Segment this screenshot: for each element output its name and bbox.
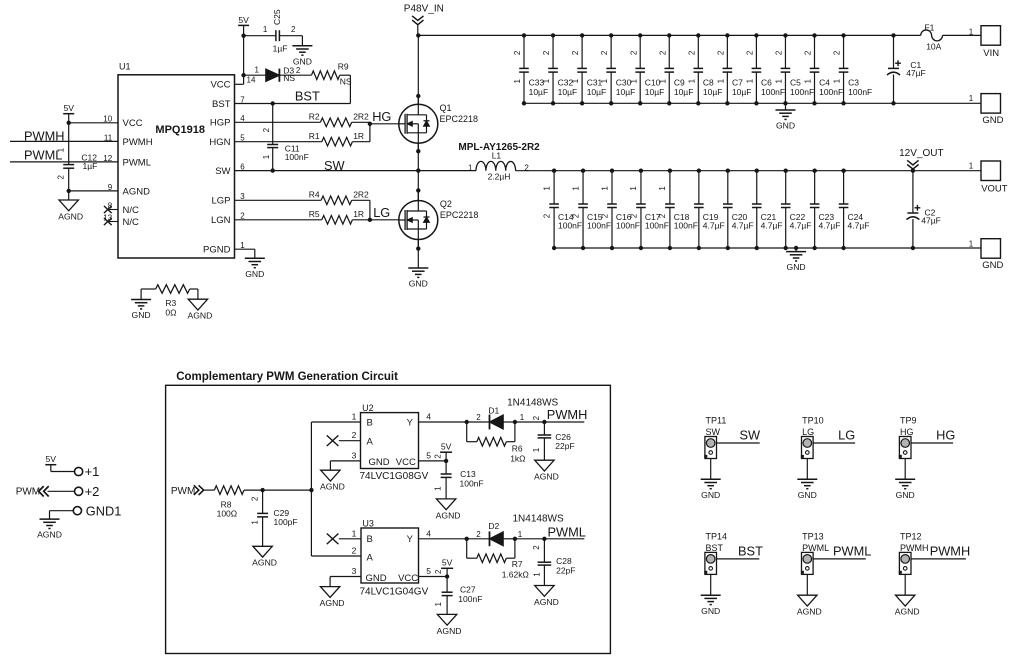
connector pin +1: [75, 467, 83, 475]
svg-text:1: 1: [658, 186, 667, 191]
power 5V (U1 VCC): [63, 113, 74, 115]
wire LG to Q2 gate: [370, 219, 399, 221]
capacitor C9 10µF: [668, 35, 670, 68]
svg-text:5V: 5V: [441, 442, 452, 452]
connector VIN: [981, 26, 1001, 46]
power 5V (U3): [441, 567, 453, 569]
svg-text:1: 1: [518, 530, 523, 539]
wire net LG from TP10: [813, 442, 855, 444]
svg-text:R2: R2: [309, 112, 320, 122]
svg-text:AGND: AGND: [187, 311, 212, 321]
svg-text:2: 2: [804, 50, 813, 55]
svg-text:1: 1: [56, 147, 65, 152]
svg-text:2: 2: [532, 415, 541, 420]
capacitor C8 10µF: [697, 35, 699, 68]
svg-text:5: 5: [426, 566, 431, 576]
wire TP9 to ground: [904, 459, 906, 480]
svg-text:GND: GND: [798, 490, 817, 500]
svg-text:LGN: LGN: [211, 215, 231, 226]
svg-text:TP11: TP11: [706, 416, 727, 426]
svg-text:2: 2: [476, 413, 481, 422]
svg-text:Y: Y: [407, 417, 414, 428]
svg-text:1: 1: [687, 78, 696, 83]
wire U1 pin 1 PGND: [235, 248, 255, 250]
svg-text:2: 2: [513, 50, 522, 55]
svg-text:HG: HG: [372, 109, 391, 124]
ground GND (R3): [131, 299, 151, 301]
wire R4 to LG node: [352, 199, 370, 201]
svg-text:5: 5: [426, 450, 431, 460]
capacitor C28 22pF: [543, 539, 545, 563]
svg-text:HG: HG: [936, 428, 955, 443]
svg-text:1.62kΩ: 1.62kΩ: [502, 569, 529, 579]
svg-text:100nF: 100nF: [458, 594, 482, 604]
resistor R3 0ohm: [156, 285, 190, 294]
svg-text:4.7µF: 4.7µF: [703, 221, 725, 231]
wire TP11 to ground: [710, 459, 712, 480]
connector VOUT: [981, 161, 1001, 181]
wire R1 to HG node: [352, 141, 370, 143]
capacitor C13 100nF: [445, 461, 447, 474]
svg-text:4.7µF: 4.7µF: [732, 221, 754, 231]
svg-text:PWMH: PWMH: [900, 543, 929, 553]
svg-text:10µF: 10µF: [587, 87, 607, 97]
svg-text:2: 2: [291, 25, 296, 34]
svg-text:2: 2: [658, 213, 667, 218]
svg-text:GND: GND: [366, 573, 387, 584]
power 5V (U2): [440, 451, 452, 453]
svg-text:AGND: AGND: [534, 597, 559, 607]
svg-text:3: 3: [352, 566, 357, 576]
svg-text:B: B: [367, 417, 373, 428]
svg-text:5V: 5V: [46, 454, 57, 464]
wire Q2 source to ground: [417, 240, 419, 269]
svg-text:1: 1: [513, 78, 522, 83]
svg-text:HG: HG: [900, 427, 914, 437]
wire TP12 to ground: [904, 574, 906, 595]
wire PWM to connector pin +2: [48, 490, 75, 492]
wire Q2 drain: [417, 171, 419, 201]
IC U3 74LVC1G04GV: [361, 528, 419, 583]
svg-text:4: 4: [426, 412, 431, 422]
capacitor C33 10µF: [523, 35, 525, 68]
wire Q1 source to SW: [416, 149, 420, 153]
wire net PWML to U1 pin 12: [10, 161, 118, 163]
svg-text:NS: NS: [283, 73, 295, 83]
capacitor C24 4.7µF: [843, 171, 845, 204]
svg-text:C25: C25: [272, 9, 282, 25]
svg-text:100nF: 100nF: [645, 221, 669, 231]
ground AGND (U1 pin 9): [68, 191, 70, 200]
svg-text:74LVC1G04GV: 74LVC1G04GV: [360, 587, 429, 598]
svg-text:AGND: AGND: [437, 626, 462, 636]
svg-text:2: 2: [746, 50, 755, 55]
wire GND1 to ground: [50, 510, 74, 512]
svg-text:BST: BST: [738, 543, 763, 558]
svg-text:P48V_IN: P48V_IN: [404, 4, 444, 15]
svg-text:BST: BST: [295, 89, 320, 104]
svg-text:VOUT: VOUT: [981, 183, 1008, 194]
capacitor C2 47uF: [912, 171, 914, 213]
svg-text:1: 1: [716, 78, 725, 83]
ground AGND (C27): [437, 614, 456, 625]
capacitor C18 100nF: [669, 171, 671, 204]
wire R5 to LG node: [352, 219, 370, 221]
capacitor C5 100nF: [784, 35, 786, 68]
wire PWM input to R8: [203, 489, 214, 491]
svg-text:F1: F1: [924, 23, 934, 33]
ground GND for TP9: [895, 478, 915, 480]
capacitor C31 10µF: [581, 35, 583, 68]
svg-text:100nF: 100nF: [790, 87, 814, 97]
svg-text:1: 1: [629, 186, 638, 191]
wire net 12V_OUT rail: [516, 170, 981, 172]
capacitor C3 100nF: [843, 35, 845, 68]
diode D2 1N4148WS: [489, 531, 491, 546]
svg-text:2: 2: [571, 50, 580, 55]
wire net PWMH (gen): [515, 421, 584, 423]
wire net PWML (gen): [515, 538, 584, 540]
wire net PWMH from TP12: [911, 558, 966, 560]
connector GND (input): [981, 94, 1001, 114]
svg-text:2: 2: [352, 430, 357, 440]
svg-text:2: 2: [542, 50, 551, 55]
wire 5V node vertical: [243, 25, 245, 75]
svg-text:GND: GND: [245, 269, 264, 279]
svg-text:1: 1: [250, 520, 259, 525]
svg-text:14: 14: [247, 75, 256, 84]
svg-text:1µF: 1µF: [273, 43, 288, 53]
svg-text:PWM: PWM: [171, 486, 195, 497]
ground AGND (C29): [253, 546, 272, 557]
svg-text:GND: GND: [369, 457, 390, 468]
svg-text:+1: +1: [85, 464, 100, 479]
svg-text:100nF: 100nF: [674, 221, 698, 231]
svg-text:+2: +2: [85, 484, 100, 499]
capacitor C10 10µF: [639, 35, 641, 68]
svg-text:L1: L1: [492, 150, 502, 160]
no-connect U2 pin A: [339, 440, 361, 442]
svg-text:3: 3: [352, 450, 357, 460]
svg-text:AGND: AGND: [320, 482, 345, 492]
svg-text:1: 1: [600, 186, 609, 191]
svg-text:10A: 10A: [926, 42, 941, 52]
svg-text:1: 1: [600, 78, 609, 83]
capacitor C14 100nF: [553, 171, 555, 204]
wire net BST from TP14: [717, 558, 760, 560]
wire R9 to BST: [340, 74, 351, 76]
svg-text:PWML: PWML: [123, 157, 152, 168]
svg-text:GND: GND: [701, 606, 720, 616]
capacitor C12 1uF: [68, 123, 70, 165]
wire net SW from TP11: [717, 442, 760, 444]
svg-text:2: 2: [833, 50, 842, 55]
svg-text:AGND: AGND: [895, 607, 920, 617]
capacitor C1 47uF: [893, 35, 895, 68]
svg-text:AGND: AGND: [320, 598, 345, 608]
svg-text:LG: LG: [373, 205, 390, 220]
svg-text:2: 2: [240, 211, 245, 220]
svg-text:2: 2: [434, 569, 443, 574]
svg-text:10µF: 10µF: [703, 87, 723, 97]
svg-text:100Ω: 100Ω: [217, 509, 238, 519]
svg-text:1: 1: [746, 78, 755, 83]
svg-text:5V: 5V: [238, 15, 249, 25]
resistor R9 NS: [279, 74, 311, 76]
ground AGND (C26): [535, 460, 554, 471]
svg-text:2: 2: [262, 127, 271, 132]
svg-text:LG: LG: [838, 428, 855, 443]
IC U1 MPQ1918: [118, 75, 235, 258]
svg-text:100nF: 100nF: [587, 221, 611, 231]
ground AGND (C13): [436, 499, 455, 510]
no-connect U1 pin 13: [108, 221, 119, 223]
IC U2 74LVC1G08GV: [361, 413, 419, 469]
svg-text:4.7µF: 4.7µF: [790, 221, 812, 231]
svg-text:SW: SW: [740, 428, 762, 443]
svg-text:PWMH: PWMH: [547, 407, 588, 422]
svg-text:R5: R5: [309, 209, 320, 219]
svg-text:1: 1: [969, 239, 974, 248]
svg-text:R4: R4: [309, 190, 320, 200]
svg-text:GND: GND: [982, 115, 1003, 126]
svg-text:10µF: 10µF: [529, 87, 549, 97]
svg-text:1: 1: [468, 163, 473, 172]
capacitor C22 4.7µF: [785, 171, 787, 204]
svg-text:2: 2: [433, 454, 442, 459]
svg-text:GND: GND: [896, 490, 915, 500]
capacitor C11 100nF: [272, 104, 274, 145]
svg-text:2R2: 2R2: [353, 112, 369, 122]
svg-text:PGND: PGND: [203, 245, 231, 256]
fuse F1 10A: [894, 34, 921, 36]
svg-text:1: 1: [571, 78, 580, 83]
capacitor C23 4.7µF: [814, 171, 816, 204]
wire net BST (U1 pin 7): [235, 103, 351, 105]
svg-text:100nF: 100nF: [761, 87, 785, 97]
svg-text:BST: BST: [212, 99, 231, 110]
ground GND (PGND): [245, 257, 265, 259]
svg-text:VIN: VIN: [983, 48, 999, 59]
svg-text:1: 1: [969, 162, 974, 171]
svg-text:74LVC1G08GV: 74LVC1G08GV: [360, 471, 429, 482]
wire U1 pin 2 LGN: [235, 219, 322, 221]
svg-text:2: 2: [658, 50, 667, 55]
svg-text:2: 2: [571, 213, 580, 218]
svg-text:VCC: VCC: [398, 573, 418, 584]
wire U1 pin 3 LGP: [235, 199, 322, 201]
resistor R6 1kohm: [466, 422, 468, 442]
svg-text:TP9: TP9: [900, 416, 917, 426]
svg-text:GND: GND: [409, 279, 428, 289]
svg-text:5V: 5V: [63, 103, 74, 113]
svg-text:10µF: 10µF: [732, 87, 752, 97]
wire U2 VCC pin to 5V: [419, 460, 447, 462]
svg-text:1: 1: [434, 602, 443, 607]
svg-text:AGND: AGND: [37, 530, 62, 540]
svg-text:GND: GND: [132, 310, 151, 320]
svg-text:12V_OUT: 12V_OUT: [899, 148, 943, 159]
svg-text:2: 2: [629, 50, 638, 55]
svg-text:SW: SW: [706, 427, 721, 437]
svg-text:2: 2: [687, 50, 696, 55]
svg-text:22pF: 22pF: [555, 441, 574, 451]
wire P48V_IN to rail: [417, 25, 419, 36]
svg-text:R7: R7: [512, 559, 523, 569]
node LG junction: [368, 218, 372, 222]
svg-text:SW: SW: [324, 158, 346, 173]
svg-text:TP14: TP14: [706, 532, 728, 542]
svg-text:PWML: PWML: [833, 543, 871, 558]
svg-text:10µF: 10µF: [674, 87, 694, 97]
svg-text:1: 1: [629, 78, 638, 83]
capacitor C32 10µF: [552, 35, 554, 68]
svg-text:N/C: N/C: [123, 217, 140, 228]
svg-text:100nF: 100nF: [558, 221, 582, 231]
resistor R7 1.62kohm: [466, 539, 468, 558]
svg-text:1: 1: [775, 78, 784, 83]
svg-text:R3: R3: [165, 298, 176, 308]
svg-text:1: 1: [833, 78, 842, 83]
svg-text:VCC: VCC: [123, 118, 143, 129]
svg-text:100nF: 100nF: [460, 478, 484, 488]
ground AGND (U3): [320, 587, 339, 598]
ground AGND (R3): [188, 299, 207, 310]
svg-text:1: 1: [520, 413, 525, 422]
capacitor C30 10µF: [610, 35, 612, 68]
wire TP10 to ground: [806, 459, 808, 480]
svg-text:47µF: 47µF: [906, 68, 926, 78]
svg-text:Q1: Q1: [440, 103, 452, 113]
diode D1 1N4148WS: [489, 415, 491, 430]
svg-text:GND: GND: [982, 260, 1003, 271]
wire Q1 drain: [417, 35, 419, 104]
svg-text:2: 2: [250, 496, 259, 501]
svg-text:2: 2: [296, 66, 301, 75]
svg-text:PWMH: PWMH: [930, 543, 971, 558]
connector pin +2: [75, 487, 83, 495]
svg-text:BST: BST: [706, 543, 724, 553]
wire U1 pin 9 AGND: [69, 190, 118, 192]
svg-text:B: B: [367, 534, 373, 545]
svg-text:100pF: 100pF: [274, 517, 298, 527]
svg-text:4: 4: [426, 528, 431, 538]
wire U2 Y output: [419, 421, 467, 423]
wire VOUT bottom rail: [554, 247, 981, 249]
ground GND for TP14: [701, 594, 721, 596]
capacitor C16 100nF: [611, 171, 613, 204]
svg-text:PWM: PWM: [16, 487, 40, 498]
svg-text:HGP: HGP: [210, 118, 231, 129]
svg-text:GND: GND: [787, 262, 806, 272]
svg-text:1: 1: [352, 528, 357, 538]
connector pin GND1: [73, 507, 81, 515]
ground AGND (connector): [40, 518, 60, 520]
svg-text:LGP: LGP: [211, 196, 230, 207]
svg-text:100nF: 100nF: [819, 87, 843, 97]
wire U2 GND pin: [330, 460, 360, 462]
capacitor C7 10µF: [726, 35, 728, 68]
no-connect U1 pin 8: [108, 209, 119, 211]
wire net PWMH to U1 pin 11: [10, 140, 118, 142]
svg-text:1: 1: [969, 94, 974, 103]
capacitor C25 1uF: [244, 35, 276, 37]
ground GND for TP10: [797, 478, 817, 480]
svg-text:EPC2218: EPC2218: [440, 114, 479, 124]
svg-text:2.2µH: 2.2µH: [488, 172, 511, 182]
capacitor C27 100nF: [446, 577, 448, 593]
svg-text:VCC: VCC: [210, 80, 230, 91]
svg-text:1R: 1R: [353, 209, 364, 219]
svg-text:U2: U2: [362, 403, 374, 413]
power 5V (C25 node): [238, 24, 249, 26]
svg-text:D2: D2: [488, 521, 499, 531]
svg-text:AGND: AGND: [58, 211, 83, 221]
ground AGND for TP12: [896, 595, 915, 606]
svg-text:1: 1: [542, 78, 551, 83]
svg-text:2: 2: [775, 50, 784, 55]
svg-text:4.7µF: 4.7µF: [848, 221, 870, 231]
svg-text:GND1: GND1: [86, 503, 122, 518]
svg-text:AGND: AGND: [252, 558, 277, 568]
power 5V (connector pin 1): [45, 464, 56, 466]
capacitor C4 100nF: [814, 35, 816, 68]
wire F1 to VIN connector: [943, 34, 982, 36]
svg-text:AGND: AGND: [123, 186, 151, 197]
svg-text:R1: R1: [309, 131, 320, 141]
svg-text:2: 2: [542, 213, 551, 218]
capacitor C29 100pF: [262, 490, 264, 513]
svg-text:PWML: PWML: [548, 524, 586, 539]
capacitor C15 100nF: [582, 171, 584, 204]
svg-text:100nF: 100nF: [848, 87, 872, 97]
resistor R8 100ohm: [214, 486, 244, 495]
svg-text:GND: GND: [701, 490, 720, 500]
svg-text:1: 1: [969, 27, 974, 36]
wire 5V to U1 pin 10: [69, 122, 118, 124]
svg-text:GND: GND: [776, 121, 795, 131]
svg-text:2: 2: [352, 546, 357, 556]
no-connect U3 pin B: [339, 538, 361, 540]
wire net PWML from TP13: [813, 558, 866, 560]
diode D3 NS: [244, 74, 266, 76]
resistor R4 2R2: [321, 196, 352, 205]
svg-text:2: 2: [600, 213, 609, 218]
ground AGND (U2): [321, 470, 340, 481]
svg-text:2: 2: [600, 50, 609, 55]
svg-text:D1: D1: [488, 405, 499, 415]
svg-text:10µF: 10µF: [616, 87, 636, 97]
wire 5V to connector pin +1: [50, 465, 52, 472]
svg-text:1: 1: [658, 78, 667, 83]
node P48V rail junction: [416, 33, 420, 37]
ground AGND for TP13: [798, 595, 817, 606]
node HG junction: [368, 122, 372, 126]
svg-text:1: 1: [262, 154, 271, 159]
svg-text:2: 2: [629, 213, 638, 218]
svg-text:LG: LG: [802, 427, 814, 437]
svg-text:1µF: 1µF: [83, 161, 98, 171]
capacitor C6 100nF: [755, 35, 757, 68]
svg-text:U1: U1: [119, 61, 131, 71]
svg-text:AGND: AGND: [534, 472, 559, 482]
svg-text:47µF: 47µF: [921, 215, 941, 225]
svg-text:1: 1: [804, 78, 813, 83]
svg-text:EPC2218: EPC2218: [440, 210, 479, 220]
capacitor C17 100nF: [640, 171, 642, 204]
svg-text:1: 1: [433, 486, 442, 491]
svg-text:10µF: 10µF: [558, 87, 578, 97]
